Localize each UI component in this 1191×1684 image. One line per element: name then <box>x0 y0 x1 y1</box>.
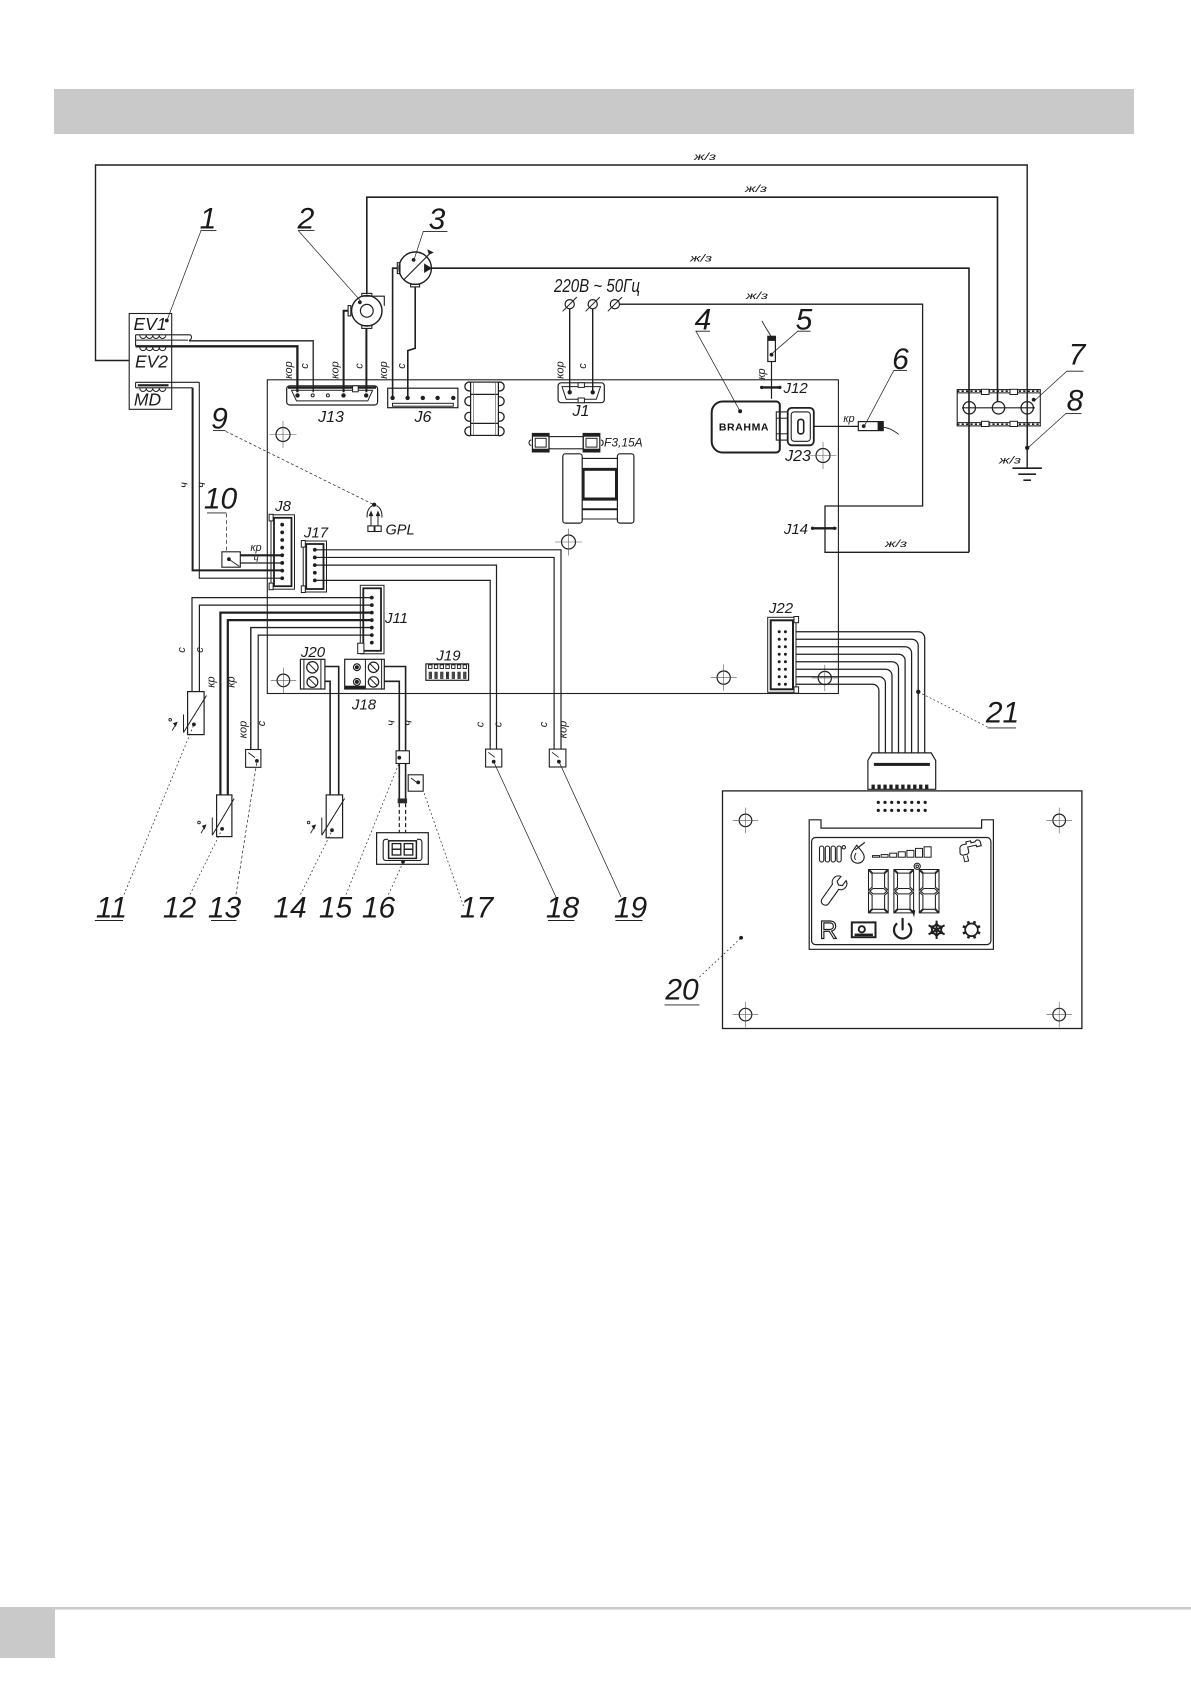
connector J22 <box>768 617 796 692</box>
temperature sensor (item 11) <box>188 692 205 735</box>
wire J17 pin3 to sensor18 right <box>315 565 497 749</box>
wire net ж/з W4 (220V phase to J14 and terminal block) <box>620 304 970 552</box>
LCD icon wrench <box>821 876 847 905</box>
wire fan left to J13 pin4 <box>344 311 349 393</box>
wire item10 to J8 pin5 <box>240 554 282 556</box>
svg-text:J20: J20 <box>300 644 326 661</box>
svg-text:MD: MD <box>134 390 162 410</box>
terminal block (item 7) <box>957 390 1040 426</box>
ignition electrode (item 6) <box>858 422 883 431</box>
wire J11 pin6 to switch13 <box>258 635 372 749</box>
panel mounting hole top-right <box>1053 814 1066 827</box>
svg-text:J19: J19 <box>435 648 461 665</box>
wire J17 pin5 to sensor18 left <box>315 580 490 749</box>
node dot ground junction (leader 8 target) <box>1025 446 1029 450</box>
supply terminal N <box>588 300 597 309</box>
panel mounting hole bottom-right <box>1053 1008 1066 1021</box>
svg-text:J12: J12 <box>783 380 809 397</box>
wire net ж/з W2 (fan top to terminal block circle2) <box>367 197 998 402</box>
svg-text:ч: ч <box>253 554 258 565</box>
svg-text:с: с <box>577 363 589 369</box>
svg-text:кр: кр <box>226 676 238 687</box>
fan motor M2 <box>352 296 382 326</box>
leader line 2 <box>298 231 360 301</box>
svg-text:кр: кр <box>206 676 218 687</box>
svg-text:J14: J14 <box>783 521 808 538</box>
wire electrode5 to BRAHMA via J12 <box>771 362 773 399</box>
wire terminal block to ground <box>1026 426 1028 468</box>
node dot BRAHMA (leader 4 target) <box>738 409 742 413</box>
svg-text:ж/з: ж/з <box>884 538 908 550</box>
leader line 9 <box>226 431 373 504</box>
svg-text:220В ~ 50Гц: 220В ~ 50Гц <box>553 276 640 296</box>
LCD icon button <box>852 922 876 937</box>
board mounting hole near J20 <box>277 674 290 687</box>
connector J8 <box>271 515 295 589</box>
relay K1 <box>563 454 582 523</box>
svg-text:ч: ч <box>386 720 398 726</box>
dip switch J19 <box>426 664 469 680</box>
leader line 14 <box>301 831 332 894</box>
svg-text:18: 18 <box>546 892 580 925</box>
svg-text:кор: кор <box>555 361 567 378</box>
supply terminal L1 <box>565 300 574 309</box>
leader line 11 <box>124 726 194 895</box>
inline connector J12 <box>762 386 780 388</box>
svg-text:EV2: EV2 <box>135 352 168 372</box>
gas valve modulator <box>399 252 431 284</box>
wire MD lower to J8 pin7 <box>193 388 283 571</box>
wire J11 pin3 to sensor12 <box>220 613 371 795</box>
panel mounting hole top-left <box>739 814 752 827</box>
svg-text:кр: кр <box>843 413 854 425</box>
board mounting hole lower middle <box>717 671 730 684</box>
svg-text:11: 11 <box>96 892 127 925</box>
wire net ж/з W3 (gas valve right to terminal block circle1) <box>431 268 969 552</box>
wire J18 lower to connector15 <box>384 681 399 751</box>
panel mounting hole bottom-left <box>739 1008 752 1021</box>
connector J11 <box>360 585 384 654</box>
temperature sensor (item 14) <box>326 795 342 838</box>
connector J6 <box>388 388 458 408</box>
supply terminal PE <box>610 300 619 309</box>
leader line 21 <box>920 693 988 728</box>
node dot EV1 (leader 1 target) <box>165 319 169 323</box>
wire valve bottom to J6 pin2 <box>408 287 415 398</box>
main control board outline <box>267 380 838 694</box>
wire J11 pin5 to switch13 <box>251 628 372 750</box>
wire item10 to J8 pin6 <box>240 562 282 564</box>
board mounting hole center <box>562 535 576 549</box>
svg-text:21: 21 <box>985 697 1019 730</box>
ground symbol <box>1013 467 1042 469</box>
leader line 7 <box>1035 371 1067 400</box>
svg-text:J23: J23 <box>784 448 811 465</box>
svg-text:с: с <box>396 363 408 369</box>
svg-text:J8: J8 <box>274 498 292 515</box>
svg-text:10: 10 <box>204 483 238 516</box>
leader line 19 <box>560 763 622 897</box>
connector J17 <box>303 541 326 592</box>
svg-text:кор: кор <box>238 721 250 738</box>
svg-text:с: с <box>354 363 366 369</box>
svg-text:с: с <box>194 647 206 653</box>
panel pin holes <box>877 801 880 804</box>
leader line 16 <box>389 863 403 895</box>
BRAHMA connector neck <box>776 412 787 440</box>
svg-text:16: 16 <box>362 892 396 925</box>
svg-text:J1: J1 <box>572 403 590 420</box>
svg-text:J6: J6 <box>414 409 432 426</box>
leader line 8 <box>1029 414 1066 448</box>
svg-text:ж/з: ж/з <box>689 253 713 265</box>
svg-text:с: с <box>299 363 311 369</box>
svg-text:F3,15A: F3,15A <box>604 436 643 450</box>
svg-text:17: 17 <box>460 892 495 925</box>
wire J20 upper to sensor14 <box>325 667 339 795</box>
svg-text:ч: ч <box>179 482 191 488</box>
board mounting hole near J23 <box>816 449 830 463</box>
transformer T1 <box>471 382 499 435</box>
wire net ж/з W1 (EV frame to terminal block circle3 and ground) <box>96 165 1028 446</box>
air pressure switch (item 10) <box>222 552 240 567</box>
svg-text:J17: J17 <box>303 525 329 542</box>
svg-text:GPL: GPL <box>386 523 415 539</box>
svg-text:20: 20 <box>664 974 699 1007</box>
microswitch (item 13) <box>246 750 261 768</box>
svg-text:ж/з: ж/з <box>745 290 769 302</box>
leader line 6 <box>865 370 894 424</box>
node dot panel (leader 20 target) <box>739 936 743 940</box>
wire J17 pin2 to sensor19 left <box>315 557 554 749</box>
coil MD <box>136 381 200 383</box>
svg-text:15: 15 <box>319 892 353 925</box>
board mounting hole lower right <box>818 671 831 684</box>
svg-text:J22: J22 <box>768 600 794 617</box>
ribbon edge connector to panel <box>868 753 936 789</box>
svg-text:6: 6 <box>892 343 909 376</box>
LCD 7-segment digits 888 <box>869 870 887 874</box>
svg-text:с: с <box>176 647 188 653</box>
svg-text:7: 7 <box>1069 339 1087 372</box>
wires connector15 to display16 <box>398 764 400 799</box>
svg-text:с: с <box>256 720 268 726</box>
bottom footer rule <box>0 1607 1191 1610</box>
wire valve left to J6 pin1 <box>393 268 398 398</box>
svg-text:кор: кор <box>330 361 342 378</box>
svg-text:с: с <box>493 721 505 727</box>
gas type symbol GPL (item 9 target) <box>368 526 374 532</box>
connector J1 <box>558 383 604 403</box>
LCD icon snowflake <box>936 921 938 939</box>
wire J11 pin2 to sensor11 <box>199 605 371 692</box>
svg-text:3: 3 <box>429 203 446 236</box>
leader line 15 <box>346 765 399 895</box>
control panel board (item 20) <box>723 791 1082 1029</box>
leader line 18 <box>494 763 556 897</box>
LCD icon faucet <box>960 840 981 855</box>
svg-text:с: с <box>538 721 550 727</box>
connector J23 <box>788 408 814 445</box>
svg-text:BRAHMA: BRAHMA <box>719 422 769 434</box>
wire J23 to ignition electrode <box>814 425 859 427</box>
leader line 1 <box>168 231 202 319</box>
svg-text:кор: кор <box>283 361 295 378</box>
svg-text:8: 8 <box>1067 385 1084 418</box>
terminal J20 <box>300 659 325 689</box>
microswitch (item 19) <box>549 749 566 767</box>
ribbon cable (item 21) <box>796 632 925 753</box>
wire EV1 to J13 pin2 <box>189 341 313 393</box>
wire L1 to J1 pin1 <box>569 309 571 393</box>
wire N to J1 pin2 <box>592 309 594 393</box>
svg-text:J13: J13 <box>317 409 344 426</box>
leader line 4 <box>696 331 739 410</box>
wire J20 lower to sensor14 <box>325 681 330 795</box>
svg-text:12: 12 <box>163 892 197 925</box>
wire J17 pin1 to sensor19 right <box>315 550 561 749</box>
LCD bezel <box>809 820 993 950</box>
svg-text:EV1: EV1 <box>133 314 166 334</box>
wire MD upper to J8 pin8 <box>199 382 282 578</box>
svg-text:14: 14 <box>273 892 306 925</box>
svg-text:кор: кор <box>558 721 570 738</box>
terminal J18 <box>345 659 385 689</box>
svg-text:ч: ч <box>403 720 415 726</box>
board mounting hole near J13 <box>276 428 290 442</box>
svg-text:кор: кор <box>378 361 390 378</box>
svg-text:ж/з: ж/з <box>693 151 717 163</box>
svg-text:с: с <box>475 721 487 727</box>
LCD icon flame <box>851 845 864 863</box>
LCD icon power bars <box>873 856 880 858</box>
node dot valve (leader 3 target) <box>412 258 416 262</box>
coil EV1 <box>136 334 191 336</box>
leader line 12 <box>190 830 222 895</box>
leader line 20 <box>700 938 741 977</box>
wire fan bottom to J13 pin5 <box>365 328 367 392</box>
svg-text:J18: J18 <box>351 697 377 714</box>
microswitch (item 17) <box>408 775 423 791</box>
remote display 88 (item 16) <box>377 833 429 865</box>
coil EV2 and thick wire to J13 pin1 <box>136 346 298 392</box>
node dot terminal block (leader 7 target) <box>1032 398 1036 402</box>
microswitch (item 18) <box>486 749 502 767</box>
connector J13 <box>287 386 378 405</box>
wire J11 pin1 to sensor11 <box>192 598 372 692</box>
leader line 5 <box>773 331 798 353</box>
connector (item 15) <box>396 751 409 764</box>
svg-text:R: R <box>819 917 837 945</box>
svg-text:ж/з: ж/з <box>998 455 1022 467</box>
solenoid block EV1/EV2/MD outline <box>129 314 172 410</box>
flame control unit BRAHMA (item 4) <box>712 402 780 453</box>
flame sense electrode (item 5) <box>768 336 776 361</box>
leader line 13 <box>236 762 257 894</box>
svg-text:J11: J11 <box>384 610 408 627</box>
svg-text:кр: кр <box>250 542 261 554</box>
wire J11 pin4 to sensor12 <box>228 620 372 795</box>
fuse F3,15A <box>532 434 549 452</box>
top header bar <box>54 89 1134 134</box>
LCD frame <box>812 838 991 945</box>
LCD icon radiator <box>820 846 824 862</box>
temperature sensor (item 12) <box>217 795 232 837</box>
node dot ribbon (leader 21 target) <box>916 690 920 694</box>
leader line 17 <box>424 792 464 907</box>
bottom footer block <box>0 1609 55 1658</box>
LCD icon gear <box>965 924 978 937</box>
wire J18 upper to connector15 <box>384 667 405 751</box>
svg-text:13: 13 <box>208 892 242 925</box>
node dot fan (leader 2 target) <box>358 300 362 304</box>
svg-text:ж/з: ж/з <box>744 183 768 195</box>
svg-text:19: 19 <box>614 892 648 925</box>
leader line 3 <box>415 232 424 259</box>
svg-text:кр: кр <box>756 368 768 379</box>
LCD icon power <box>894 923 911 938</box>
leader line 10 <box>225 514 227 552</box>
inline connector J14 <box>812 527 837 529</box>
